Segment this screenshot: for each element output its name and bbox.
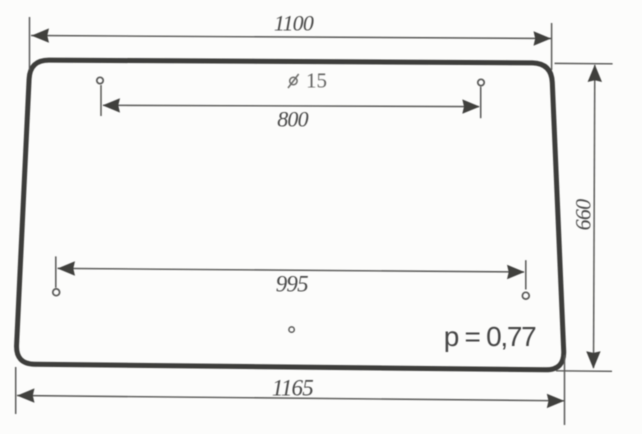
dimension 800: tick below left hole [100,85,102,116]
glass panel outline [17,60,564,370]
hole bottom-center [289,327,294,332]
svg-text:p = 0,77: p = 0,77 [444,321,536,352]
dimension 660: extension line bottom [556,370,612,373]
dimension 1165: dimension line [17,396,564,401]
dimension 800: left arrow [103,98,121,112]
dimension 995: right arrow [507,265,525,279]
dimension 995: tick above right hole [525,260,527,289]
dimension 660: top arrow [588,65,602,83]
dimension 1100: extension line right [551,23,553,70]
dimension 1165: right arrow [547,394,565,408]
svg-text:660: 660 [570,199,595,230]
dimension 1165: left arrow [17,388,35,402]
dimension 800: dimension line [103,105,479,106]
label diameter symbol [288,74,299,88]
svg-text:800: 800 [277,107,308,132]
dimension 800: tick below right hole [480,87,482,119]
dimension 1100: dimension line [31,36,551,39]
dimension 800: right arrow [462,99,480,113]
svg-text:1100: 1100 [274,11,314,36]
dimension 660: dimension line [594,65,595,368]
hole top-right [478,79,484,85]
dimension 1165: extension line right [564,355,566,425]
dimension 1100: right arrow [534,31,552,45]
dimension 1100: left arrow [32,28,50,42]
hole bottom-left [53,289,60,296]
hole top-left [97,77,103,83]
dimension 660: extension line top [555,62,613,64]
hole bottom-right [522,292,529,299]
dimension 1100: extension line left [29,17,31,70]
dimension 995: tick above left hole [55,256,57,287]
dimension 995: dimension line [58,268,525,272]
svg-text:1165: 1165 [272,376,313,401]
dimension 995: left arrow [58,261,76,275]
svg-text:995: 995 [276,272,308,297]
dimension 1165: extension line left [15,367,17,414]
dimension 660: bottom arrow [586,351,600,369]
svg-text:15: 15 [306,68,327,92]
